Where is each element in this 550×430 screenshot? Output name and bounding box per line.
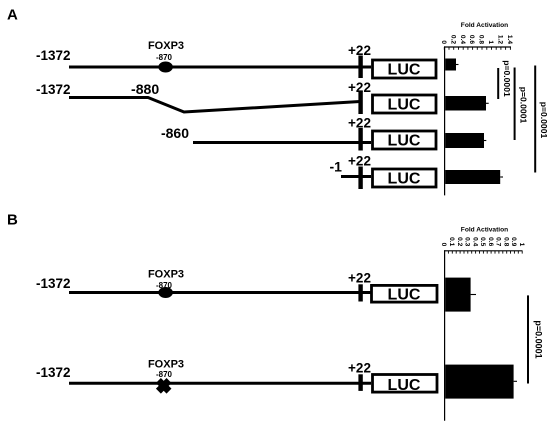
svg-text:LUC: LUC	[388, 377, 421, 394]
svg-text:1.2: 1.2	[497, 35, 504, 44]
svg-text:0.2: 0.2	[449, 35, 456, 44]
chart A y axis	[444, 46, 446, 195]
chart B bar 2	[445, 365, 513, 399]
chart A bar 2 error whisker	[486, 102, 489, 104]
transcription start tick B1	[358, 284, 362, 301]
svg-text:+22: +22	[348, 361, 371, 376]
svg-text:0.5: 0.5	[479, 237, 486, 246]
promoter line construct A3	[193, 141, 371, 144]
transcription start tick A1	[358, 56, 362, 79]
svg-text:-1372: -1372	[36, 275, 71, 291]
chart B bar 1 error whisker	[471, 294, 476, 296]
svg-text:0.1: 0.1	[448, 237, 455, 246]
promoter line construct A1	[69, 66, 371, 69]
svg-text:-880: -880	[131, 81, 159, 97]
svg-text:0: 0	[440, 243, 447, 247]
FOXP3 site ellipse A1	[158, 62, 173, 73]
transcription start tick B2	[358, 374, 362, 391]
chart A bar 1 error whisker	[456, 64, 459, 66]
svg-text:-1372: -1372	[36, 81, 71, 97]
svg-text:0.8: 0.8	[502, 237, 509, 246]
svg-text:p=0.0001: p=0.0001	[534, 320, 544, 358]
svg-text:1.4: 1.4	[506, 35, 513, 44]
svg-text:FOXP3: FOXP3	[148, 359, 184, 371]
svg-text:A: A	[7, 7, 18, 24]
promoter line construct B2	[69, 382, 371, 385]
chart B y axis	[444, 250, 446, 421]
LUC box B2	[373, 375, 438, 393]
svg-text:p=0.0001: p=0.0001	[518, 87, 528, 124]
significance bracket 2 line (A)	[514, 68, 516, 141]
significance bracket 1 line (A)	[497, 68, 499, 99]
chart A bar 3 error whisker	[484, 140, 486, 142]
svg-text:LUC: LUC	[388, 62, 421, 79]
svg-text:FOXP3: FOXP3	[148, 269, 184, 281]
promoter line construct A4	[341, 175, 371, 178]
chart A bar 1	[445, 59, 456, 71]
chart B bar 2 error whisker	[514, 380, 517, 382]
chart A x axis	[444, 46, 511, 48]
significance bracket line (B)	[527, 295, 529, 383]
LUC box A1	[373, 60, 437, 78]
svg-text:1: 1	[487, 40, 494, 44]
svg-text:-1372: -1372	[36, 364, 71, 380]
svg-text:0.8: 0.8	[478, 35, 485, 44]
svg-text:0.9: 0.9	[510, 237, 517, 246]
svg-text:-1: -1	[330, 158, 343, 174]
transcription start tick A2	[358, 92, 362, 115]
LUC box B1	[372, 285, 438, 302]
mutated FOXP3 site X marker B2	[158, 381, 169, 392]
svg-text:p=0.0001: p=0.0001	[539, 102, 549, 139]
svg-text:B: B	[7, 212, 18, 229]
svg-text:LUC: LUC	[388, 133, 421, 150]
FOXP3 site ellipse B1	[158, 287, 173, 298]
svg-text:+22: +22	[348, 271, 371, 286]
svg-text:0.3: 0.3	[464, 237, 471, 246]
svg-text:0: 0	[440, 40, 447, 44]
LUC box A3	[373, 131, 437, 149]
svg-text:FOXP3: FOXP3	[148, 40, 184, 52]
svg-text:+22: +22	[348, 154, 371, 169]
svg-text:-870: -870	[156, 53, 173, 62]
promoter line construct A2 (deletion bend)	[69, 98, 360, 113]
chart A bar 3	[445, 133, 484, 148]
transcription start tick A4	[358, 167, 362, 190]
svg-text:0.2: 0.2	[456, 237, 463, 246]
svg-text:Fold Activation: Fold Activation	[461, 22, 508, 29]
svg-text:-1372: -1372	[36, 47, 71, 63]
svg-text:0.4: 0.4	[471, 237, 478, 246]
chart A axis ticks	[444, 47, 510, 50]
LUC box A4	[373, 169, 437, 187]
svg-text:-860: -860	[161, 125, 189, 141]
svg-text:0.6: 0.6	[468, 35, 475, 44]
svg-text:Fold Activation: Fold Activation	[461, 227, 508, 234]
chart B axis ticks	[445, 251, 523, 254]
svg-text:0.4: 0.4	[459, 35, 466, 44]
LUC box A2	[373, 95, 437, 113]
svg-text:LUC: LUC	[388, 286, 421, 303]
significance bracket 3 line (A)	[534, 66, 536, 173]
chart A bar 2	[445, 96, 486, 111]
transcription start tick A3	[358, 128, 362, 151]
chart B x axis	[444, 250, 523, 252]
svg-text:LUC: LUC	[388, 171, 421, 188]
svg-text:p=0.0001: p=0.0001	[502, 60, 512, 97]
svg-text:0.7: 0.7	[495, 237, 502, 246]
svg-text:1: 1	[518, 243, 525, 247]
svg-text:LUC: LUC	[388, 97, 421, 114]
promoter line construct B1	[69, 291, 371, 294]
chart B bar 1	[445, 278, 470, 312]
chart A bar 4 error whisker	[500, 176, 503, 178]
svg-text:0.6: 0.6	[487, 237, 494, 246]
svg-text:-870: -870	[156, 370, 173, 379]
chart A bar 4	[445, 170, 500, 184]
